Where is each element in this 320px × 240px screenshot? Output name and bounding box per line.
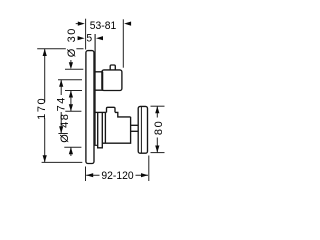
arrowhead 53-81 right [124, 22, 131, 26]
dim Ø30 bottom ext [65, 90, 82, 92]
dim 80 top ext [151, 105, 165, 107]
dim 74 bottom ext [58, 133, 67, 135]
dim Ø30/Ø48 between line [70, 91, 72, 112]
arrowhead Ø30 top (down) [69, 62, 73, 69]
dim Ø30 top arrow stem [70, 60, 72, 64]
svg-text:74: 74 [56, 96, 68, 111]
arrowhead 74 bottom [59, 126, 63, 133]
svg-text:Ø 48: Ø 48 [59, 112, 71, 142]
lever bar front edge line [140, 107, 142, 153]
arrowhead 5 right [96, 36, 103, 40]
escutcheon plate (side view) [86, 51, 94, 164]
dim Ø48 bottom ext [64, 146, 81, 148]
svg-text:92-120: 92-120 [101, 170, 133, 182]
dim 170 line [44, 49, 46, 163]
arrowhead Ø48 top (down) [69, 104, 73, 111]
arrowhead 92-120 right [141, 173, 148, 177]
dim 170 extension bottom [42, 161, 83, 163]
lower handle body right and bottom [102, 117, 130, 143]
dim 53-81 arrow tails [76, 23, 131, 25]
dim 92-120 left ext [85, 167, 87, 182]
svg-text:Ø 30: Ø 30 [66, 27, 78, 57]
lever bar [138, 106, 147, 153]
arrowhead 5 left [78, 36, 85, 40]
arrowhead Ø30 bottom (up) [69, 91, 73, 98]
arrowhead 170 top [43, 49, 47, 56]
svg-text:170: 170 [36, 97, 48, 120]
arrowhead 80 top [155, 106, 159, 113]
dim Ø48 bottom arrow stem [70, 147, 72, 156]
top knob base [95, 72, 103, 90]
dim 74 top ext [58, 79, 82, 81]
dim 53-81 right ext [122, 19, 124, 67]
arrowhead 80 bottom [155, 146, 159, 153]
stem lower line [131, 130, 139, 132]
dim 170 extension top [37, 48, 83, 50]
lower handle front rim [98, 112, 103, 147]
dim Ø30 top ext [65, 68, 83, 70]
svg-text:80: 80 [153, 120, 165, 135]
top knob body [102, 70, 122, 91]
top knob bump [110, 65, 115, 70]
dim 74 line [60, 80, 62, 134]
dim 5 arrow tails [78, 37, 103, 39]
arrowhead Ø48 bottom (up) [69, 147, 73, 154]
dim 53-81 left ext [85, 19, 87, 50]
dim 80 bottom ext [151, 152, 165, 154]
lower handle body front edge [104, 112, 106, 143]
arrowhead 92-120 left [86, 173, 93, 177]
lower handle collar top edge [95, 111, 106, 113]
lower handle top edge and step [115, 112, 131, 117]
arrowhead 74 top [59, 80, 63, 87]
arrowhead 53-81 left [78, 22, 85, 26]
arrowhead 170 bottom [43, 155, 47, 162]
dim 80 line [156, 106, 158, 152]
stem upper line [131, 124, 139, 126]
dim Ø48 top ext [65, 110, 81, 112]
dim 92-120 right ext [148, 156, 150, 182]
sleeve edge line [95, 34, 98, 145]
lower handle bump [107, 107, 116, 112]
svg-text:5: 5 [86, 32, 92, 44]
svg-text:53-81: 53-81 [90, 20, 116, 32]
dim 92-120 line [86, 174, 148, 176]
